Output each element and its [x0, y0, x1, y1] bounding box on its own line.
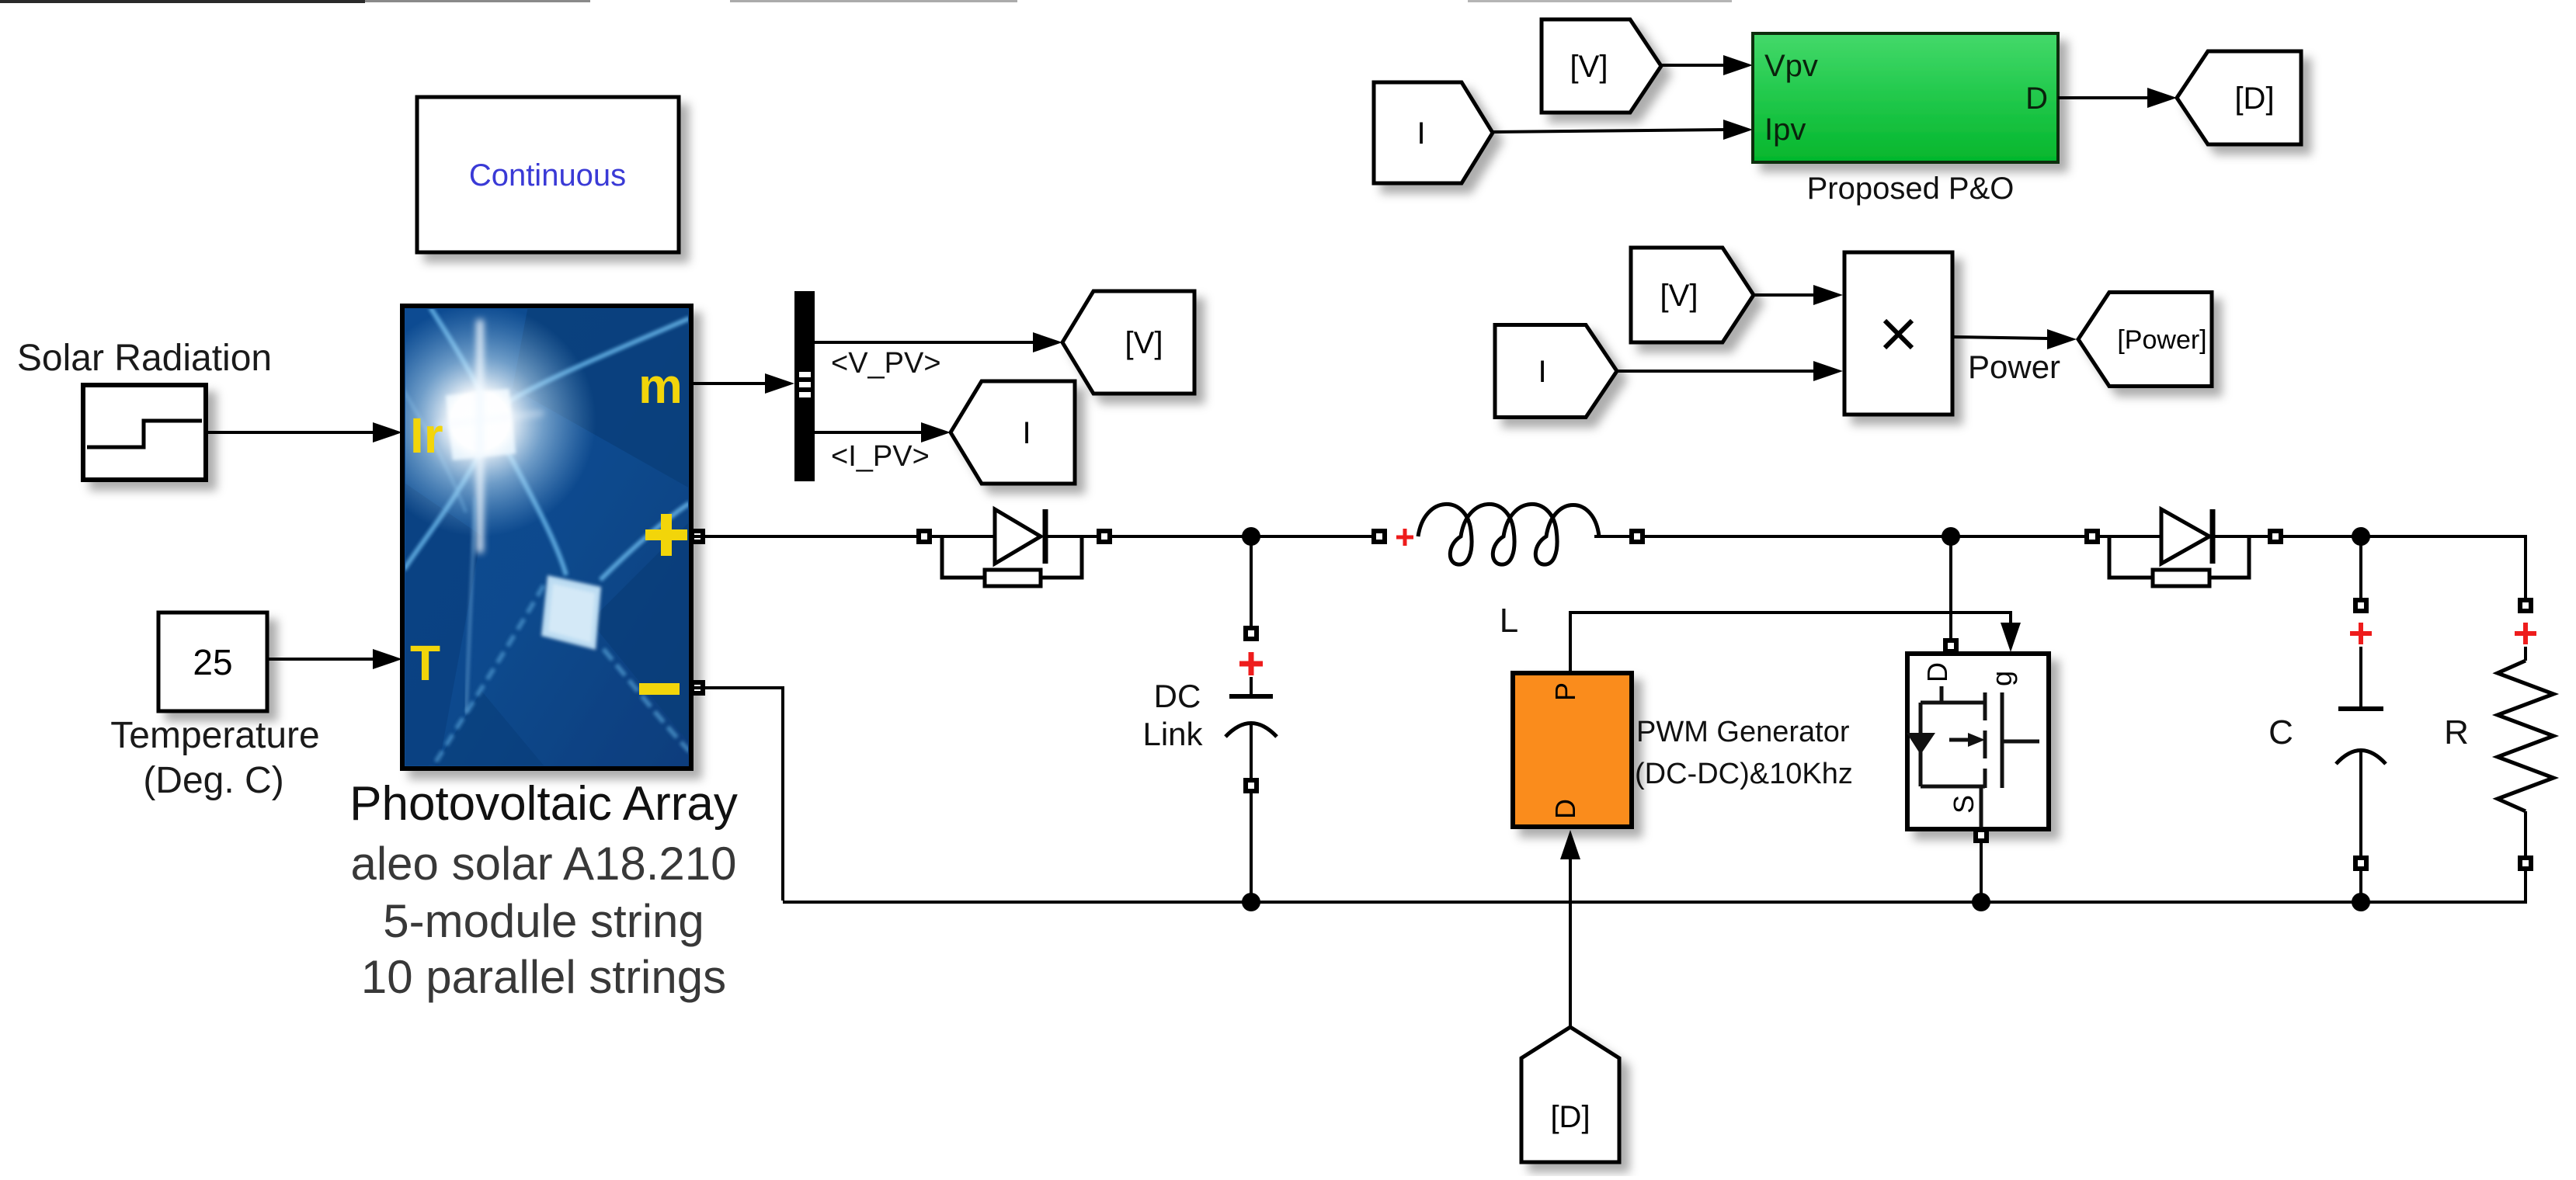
step source block — [83, 385, 206, 480]
node B junction (drain) — [1942, 527, 1960, 546]
wire PV m output to bus selector — [691, 373, 794, 394]
svg-text:DC: DC — [1154, 678, 1201, 714]
diode D2 with RC snubber — [2084, 509, 2283, 586]
from tag I (top) — [1374, 82, 1493, 183]
wire D to goto [D] — [2058, 88, 2177, 108]
wire node B down to MOSFET drain — [1949, 536, 1952, 640]
wire [V] to Vpv — [1661, 55, 1753, 75]
svg-text:S: S — [1948, 795, 1980, 814]
goto tag I — [951, 381, 1075, 484]
svg-text:<I_PV>: <I_PV> — [831, 440, 930, 473]
svg-text:I: I — [1417, 116, 1425, 151]
capacitor C — [2336, 598, 2386, 871]
diode D1 with RC snubber — [916, 509, 1112, 586]
svg-text:5-module string: 5-module string — [383, 895, 704, 947]
bus selector — [794, 291, 815, 481]
crop artifact top faint marks — [365, 0, 590, 2]
PV output port squares — [690, 529, 705, 544]
svg-text:10 parallel strings: 10 parallel strings — [361, 951, 726, 1003]
wire DC link cap to bottom rail — [1250, 793, 1253, 902]
wire MOSFET source to bottom rail — [1980, 843, 1983, 902]
wire [D] to PWM duty input — [1560, 830, 1580, 1027]
node C junction — [2352, 527, 2370, 546]
powergui block "Continuous" — [417, 97, 679, 252]
svg-text:m: m — [638, 358, 683, 414]
DC Link capacitor — [1225, 626, 1277, 793]
wire capacitor C to bottom rail — [2359, 871, 2362, 902]
svg-text:T: T — [410, 635, 440, 691]
svg-text:Continuous: Continuous — [469, 158, 626, 193]
svg-text:(DC-DC)&10Khz: (DC-DC)&10Khz — [1635, 758, 1853, 790]
goto tag [D] (top right) — [2177, 51, 2301, 144]
from tag [V] (top) — [1542, 19, 1661, 113]
wire bus I_PV to goto I — [815, 422, 951, 442]
svg-text:[D]: [D] — [1550, 1100, 1590, 1134]
product block x — [1844, 252, 1952, 415]
wire PV - to bottom rail — [691, 688, 783, 901]
wire product to goto [Power] — [1952, 329, 2077, 349]
svg-text:<V_PV>: <V_PV> — [831, 347, 941, 380]
wire I to product — [1617, 361, 1843, 381]
svg-text:D: D — [2025, 82, 2048, 116]
svg-text:P: P — [1549, 682, 1581, 701]
constant block "25" — [158, 613, 267, 711]
svg-text:I: I — [1022, 416, 1031, 450]
wire bus V_PV to goto V — [815, 332, 1062, 352]
photovoltaic array block U1 — [363, 304, 705, 916]
wire I to Ipv — [1493, 120, 1753, 140]
svg-text:PWM Generator: PWM Generator — [1636, 716, 1850, 748]
svg-text:Power: Power — [1968, 349, 2060, 385]
svg-text:Ir: Ir — [410, 408, 443, 463]
svg-text:Solar Radiation: Solar Radiation — [17, 338, 272, 379]
wire node C to resistor R — [2361, 536, 2526, 599]
resistor R — [2498, 598, 2553, 871]
wire resistor R to bottom rail — [2524, 871, 2527, 904]
inductor L — [1371, 504, 1645, 564]
from tag [V] (middle) — [1631, 248, 1754, 342]
svg-text:[V]: [V] — [1570, 50, 1608, 84]
svg-text:[D]: [D] — [2234, 82, 2274, 116]
wire PWM P output to MOSFET gate — [1570, 613, 2021, 673]
PV port label minus — [639, 683, 680, 695]
svg-text:L: L — [1500, 602, 1518, 640]
goto tag [V] — [1062, 291, 1194, 394]
svg-text:R: R — [2444, 713, 2469, 751]
junction DC link bottom — [1242, 893, 1260, 911]
svg-text:Temperature: Temperature — [110, 715, 319, 756]
from tag I (middle) — [1495, 325, 1617, 418]
from tag [D] (bottom) — [1521, 1027, 1619, 1162]
svg-text:[Power]: [Power] — [2117, 325, 2206, 355]
crop artifact top-left bar — [0, 0, 365, 3]
bottom rail wire — [783, 901, 2527, 904]
svg-text:Link: Link — [1142, 716, 1203, 752]
wire [V] to product — [1754, 285, 1843, 305]
svg-text:D: D — [1549, 799, 1581, 819]
svg-text:I: I — [1538, 355, 1546, 389]
wire node C down to capacitor C — [2359, 536, 2362, 599]
wire D2 to output node C — [2283, 535, 2526, 538]
svg-text:C: C — [2268, 713, 2293, 751]
svg-text:aleo solar A18.210: aleo solar A18.210 — [350, 838, 736, 890]
svg-text:g: g — [1986, 671, 2018, 686]
svg-text:Proposed P&O: Proposed P&O — [1807, 172, 2015, 206]
goto tag [Power] — [2078, 293, 2212, 387]
svg-text:D: D — [1921, 662, 1953, 682]
wire inductor to node B — [1645, 535, 2086, 538]
MOSFET block Q1 — [1907, 638, 2049, 843]
PV port label + — [645, 514, 687, 556]
junction capacitor bottom — [2352, 893, 2370, 911]
wire PV + to diode D1 — [691, 535, 920, 538]
wire D1 to node A — [1112, 535, 1375, 538]
svg-text:25: 25 — [193, 642, 232, 682]
MPPT block "Proposed P&O" — [1753, 33, 2058, 162]
svg-text:Vpv: Vpv — [1764, 49, 1818, 83]
junction MOSFET source bottom — [1972, 893, 1990, 911]
node A junction — [1242, 527, 1260, 546]
svg-text:Photovoltaic Array: Photovoltaic Array — [349, 777, 738, 831]
wire node A down to DC link cap — [1250, 536, 1253, 627]
wire constant 25 to PV T input — [267, 649, 402, 669]
wire step to PV Ir input — [206, 422, 402, 442]
svg-text:[V]: [V] — [1125, 326, 1163, 360]
svg-text:[V]: [V] — [1660, 279, 1698, 313]
svg-text:(Deg. C): (Deg. C) — [143, 760, 283, 801]
PWM generator block — [1513, 673, 1632, 827]
svg-text:Ipv: Ipv — [1764, 113, 1806, 147]
